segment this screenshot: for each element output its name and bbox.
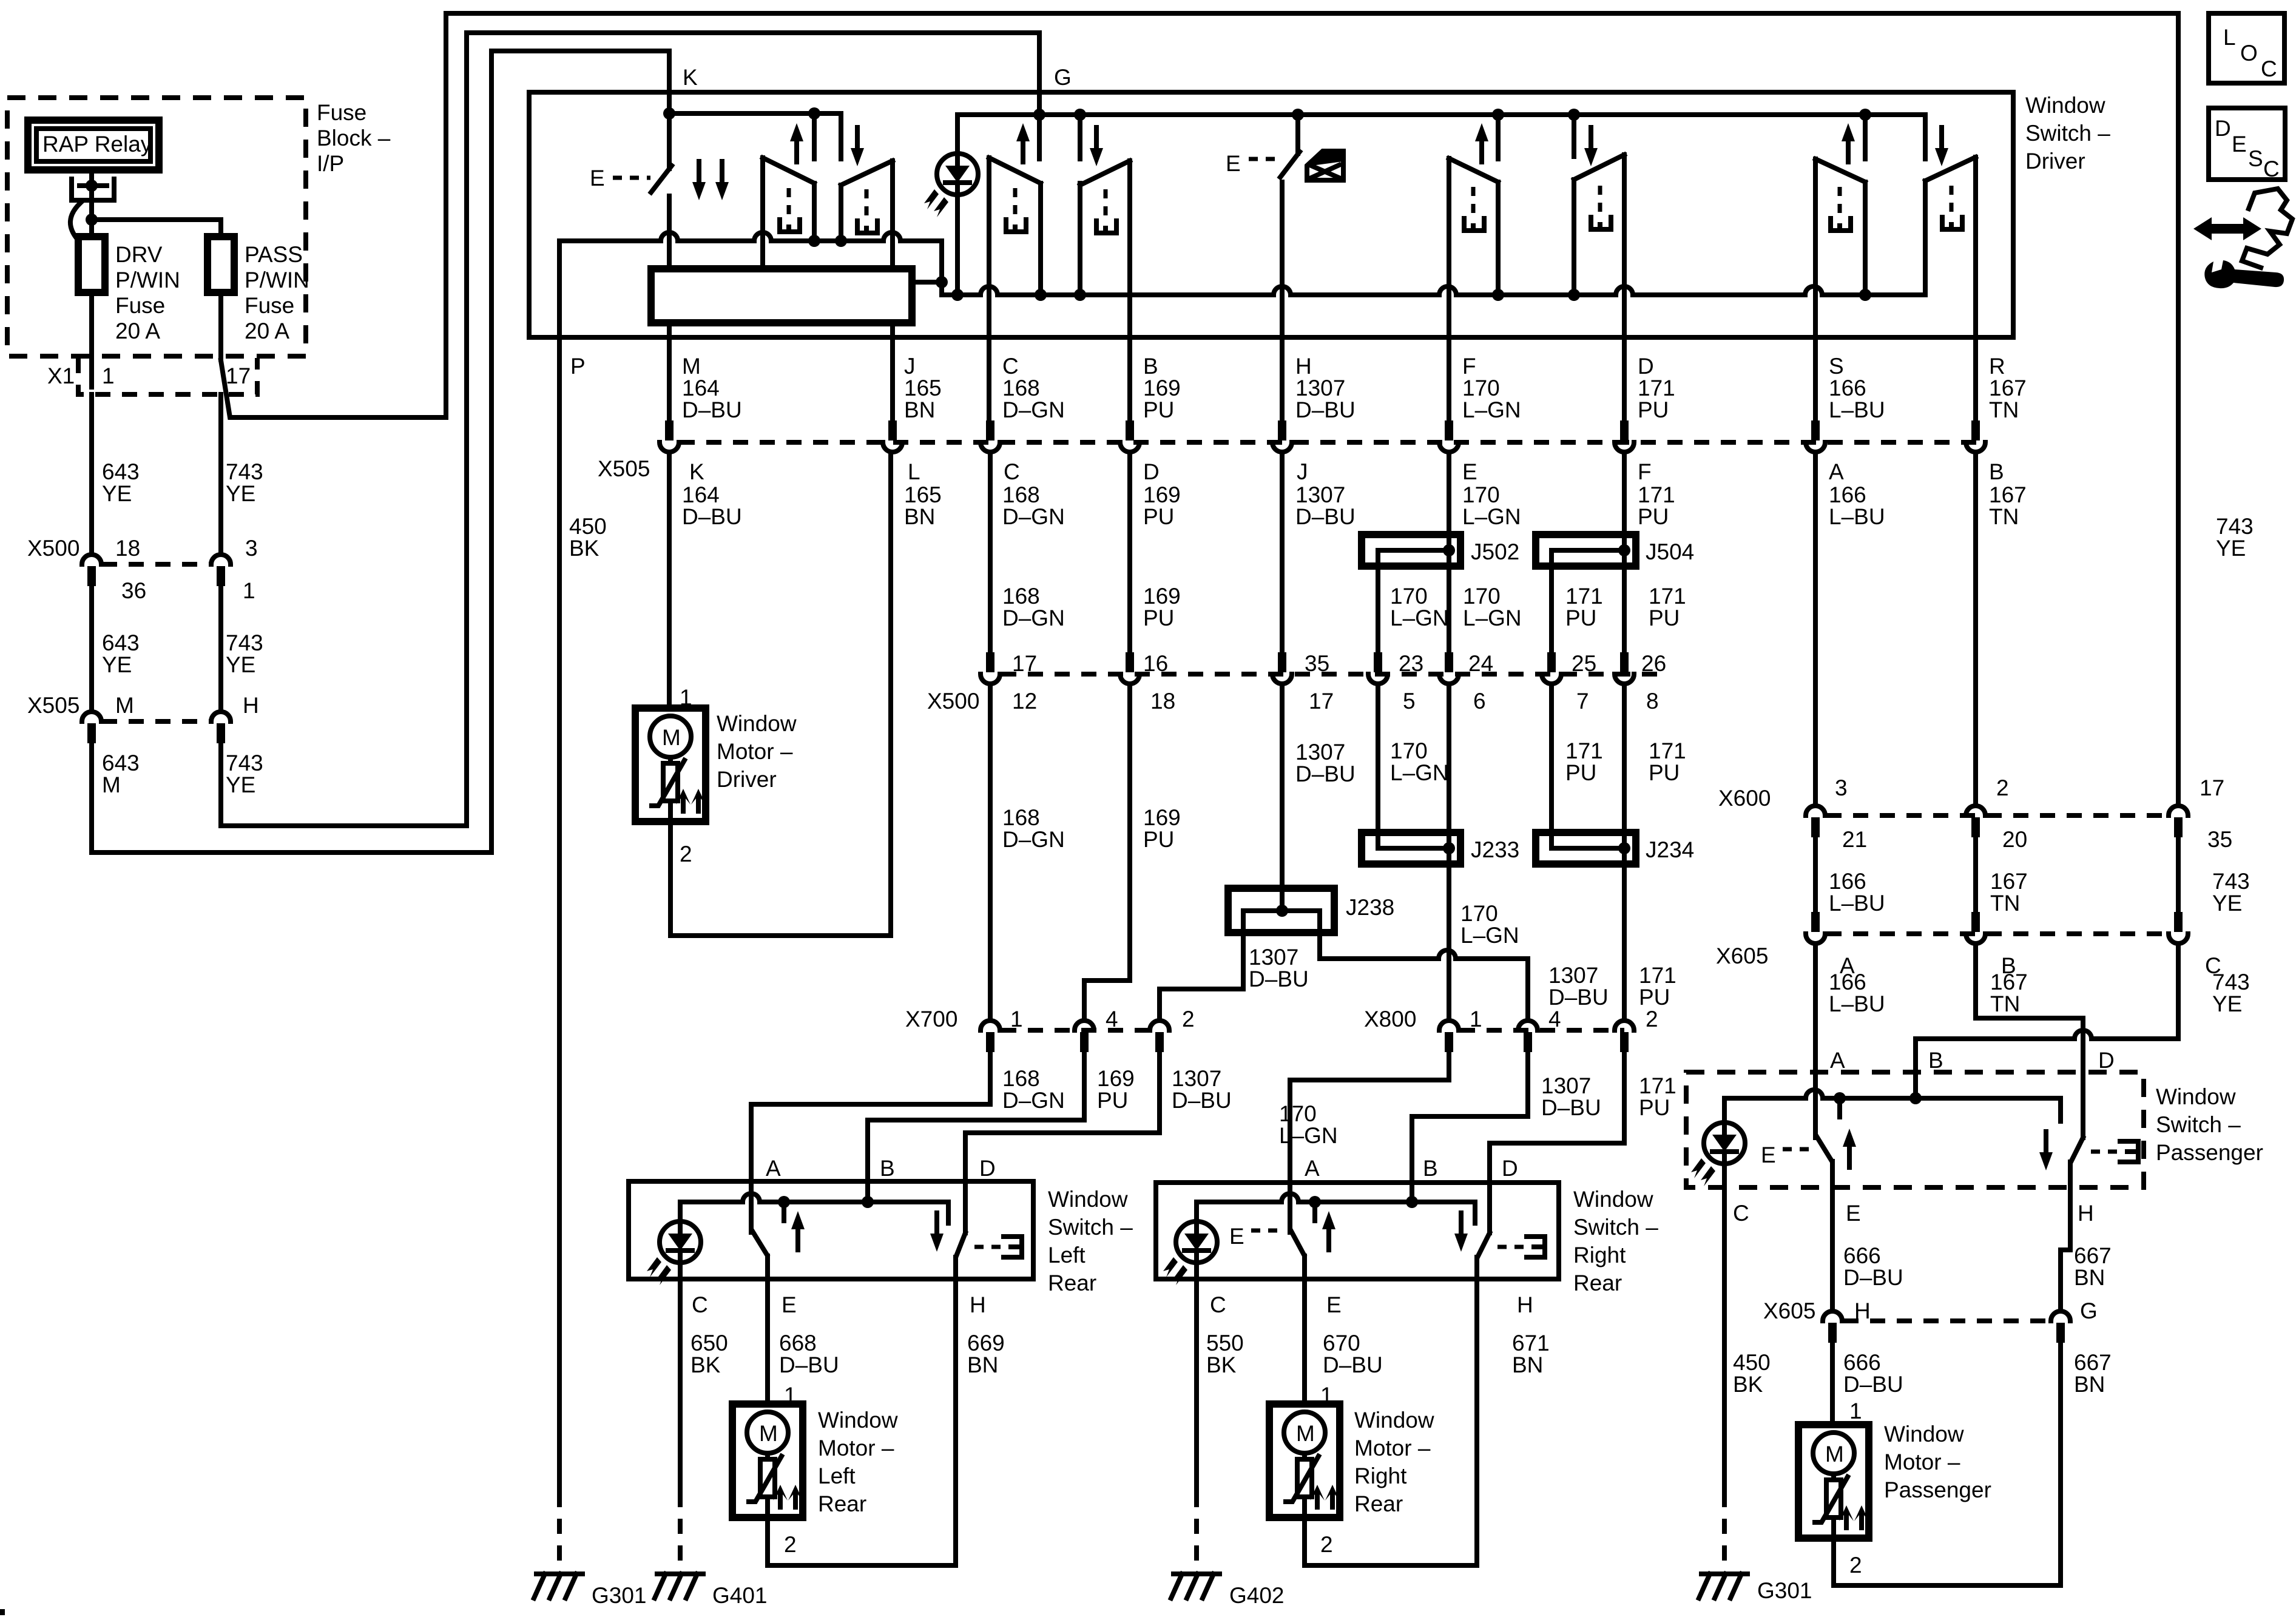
svg-text:PU: PU — [1565, 606, 1596, 630]
svg-text:C: C — [2263, 157, 2280, 181]
LOC box — [2209, 13, 2284, 83]
svg-text:165: 165 — [904, 376, 942, 400]
svg-text:Switch –: Switch – — [2025, 121, 2110, 146]
svg-text:Window: Window — [717, 711, 797, 736]
svg-text:Left: Left — [1048, 1243, 1086, 1268]
wire R 167 X505 to X600 — [1973, 453, 1978, 805]
svg-text:Switch –: Switch – — [2156, 1112, 2241, 1137]
connector X500 left row — [102, 562, 211, 567]
junction J233 — [1362, 832, 1460, 864]
svg-text:D–GN: D–GN — [1002, 1088, 1065, 1113]
svg-text:Window: Window — [818, 1408, 898, 1433]
svg-text:1307: 1307 — [1295, 740, 1345, 765]
wire D 169 X505 to X500 — [1127, 453, 1132, 663]
svg-text:36: 36 — [121, 578, 146, 603]
svg-text:D–BU: D–BU — [1323, 1352, 1383, 1377]
svg-text:21: 21 — [1842, 827, 1867, 852]
svg-text:D–GN: D–GN — [1002, 397, 1065, 422]
wire 1307 X800-4 to right rear B — [1412, 1052, 1528, 1204]
svg-text:667: 667 — [2074, 1350, 2112, 1375]
svg-text:668: 668 — [779, 1331, 817, 1355]
fuse DRV P/WIN — [89, 220, 94, 238]
svg-text:2: 2 — [1996, 775, 2009, 800]
svg-text:743: 743 — [2212, 869, 2250, 894]
svg-text:2: 2 — [1320, 1532, 1333, 1557]
right rear switch box — [1156, 1183, 1559, 1279]
svg-text:RAP Relay: RAP Relay — [42, 132, 152, 157]
internal bus passenger — [1724, 1090, 2061, 1122]
wire 643 M to driver switch K — [92, 51, 669, 852]
svg-text:Passenger: Passenger — [2156, 1140, 2263, 1165]
svg-text:PU: PU — [1097, 1088, 1128, 1113]
wire 670 to motor — [1302, 1279, 1307, 1404]
wire 643 fuse to X1 — [89, 292, 94, 387]
svg-text:J502: J502 — [1471, 539, 1519, 564]
svg-text:PASS: PASS — [245, 242, 303, 267]
wire 170 J233 to X800 pin1 — [1447, 848, 1451, 1019]
pair4 up wire — [1863, 115, 1868, 295]
connector X505 main row — [680, 440, 1984, 445]
svg-text:TN: TN — [1989, 504, 2019, 529]
svg-text:170: 170 — [1460, 901, 1498, 926]
svg-text:169: 169 — [1097, 1066, 1135, 1091]
svg-text:D–BU: D–BU — [779, 1352, 839, 1377]
wire 171 J234 to X800 pin2 — [1622, 848, 1627, 1019]
svg-text:TN: TN — [1990, 891, 2020, 916]
pair1 down wire — [839, 113, 843, 159]
wire J 1307 X505 to X500 — [1280, 453, 1285, 663]
svg-text:Driver: Driver — [717, 767, 777, 792]
svg-text:8: 8 — [1646, 689, 1659, 714]
svg-text:D–BU: D–BU — [1541, 1095, 1601, 1120]
svg-text:E: E — [1462, 459, 1477, 484]
svg-text:23: 23 — [1399, 651, 1423, 676]
up arrow — [1843, 1129, 1856, 1167]
svg-text:Window: Window — [1573, 1187, 1653, 1212]
svg-text:7: 7 — [1576, 689, 1589, 714]
connector X1 dashed box — [78, 358, 257, 394]
svg-text:G: G — [1054, 65, 1072, 90]
wire J out of block — [890, 323, 895, 337]
svg-text:E: E — [1846, 1201, 1861, 1226]
svg-text:171: 171 — [1639, 1073, 1676, 1098]
svg-text:G401: G401 — [712, 1583, 768, 1608]
svg-text:6: 6 — [1473, 689, 1486, 714]
pair2 blade dashes — [1013, 188, 1018, 218]
svg-text:Rear: Rear — [1354, 1491, 1403, 1516]
svg-text:C: C — [1004, 459, 1020, 484]
svg-text:BK: BK — [1206, 1352, 1237, 1377]
svg-text:1307: 1307 — [1295, 482, 1345, 507]
svg-text:16: 16 — [1143, 651, 1168, 676]
svg-text:Motor –: Motor – — [1354, 1436, 1431, 1460]
svg-text:166: 166 — [1829, 482, 1866, 507]
svg-text:L–BU: L–BU — [1829, 991, 1885, 1016]
up switch A-E — [1813, 945, 1818, 1138]
svg-text:167: 167 — [1990, 869, 2028, 894]
svg-text:YE: YE — [226, 652, 255, 677]
junction J234 — [1536, 832, 1636, 864]
svg-text:E: E — [1229, 1224, 1244, 1249]
svg-text:H: H — [2078, 1201, 2094, 1226]
window motor right rear — [1269, 1404, 1340, 1517]
wire 1307 X700-2 to left rear D — [965, 1052, 1160, 1233]
connector X700 row — [1001, 1028, 1160, 1033]
down arrow — [2039, 1132, 2053, 1170]
svg-text:L–GN: L–GN — [1460, 923, 1519, 948]
fuse PASS P/WIN — [208, 237, 234, 292]
wire 168 X500 to X700 — [988, 685, 993, 1019]
wire 169 X700-4 to left rear B — [868, 1052, 1084, 1204]
svg-text:F: F — [1638, 459, 1652, 484]
svg-text:D–BU: D–BU — [1295, 397, 1356, 422]
svg-text:BK: BK — [1733, 1372, 1763, 1397]
LED driver switch — [924, 154, 978, 217]
svg-text:X700: X700 — [905, 1007, 957, 1031]
svg-text:G301: G301 — [1757, 1578, 1812, 1603]
svg-text:743: 743 — [2216, 514, 2254, 539]
wire driver motor loop to L — [670, 453, 891, 936]
svg-text:PU: PU — [1638, 504, 1669, 529]
lockout contact dashes — [2091, 1150, 2118, 1154]
svg-text:A: A — [1829, 459, 1844, 484]
up arrow — [1322, 1211, 1335, 1250]
window lock icon — [1307, 151, 1343, 180]
junction J502 — [1447, 453, 1451, 550]
wire 743 YE X1 to X500 — [218, 394, 223, 553]
svg-text:PU: PU — [1143, 397, 1174, 422]
svg-text:D–BU: D–BU — [682, 504, 742, 529]
svg-text:Motor –: Motor – — [717, 739, 793, 764]
svg-text:743: 743 — [226, 459, 263, 484]
svg-text:PU: PU — [1639, 1095, 1670, 1120]
svg-text:TN: TN — [1989, 397, 2019, 422]
svg-text:170: 170 — [1390, 738, 1428, 763]
pair3 blade dashes — [1471, 187, 1476, 217]
svg-text:C: C — [2261, 56, 2277, 81]
svg-text:169: 169 — [1143, 805, 1181, 830]
svg-text:TN: TN — [1990, 991, 2020, 1016]
svg-text:2: 2 — [784, 1532, 797, 1557]
svg-text:X605: X605 — [1716, 944, 1768, 968]
pair1 up wire — [812, 113, 817, 159]
window motor left rear — [732, 1404, 803, 1517]
svg-text:L–BU: L–BU — [1829, 504, 1885, 529]
svg-text:X500: X500 — [927, 689, 979, 714]
svg-text:17: 17 — [226, 363, 251, 388]
wire 450 BK P down — [557, 337, 562, 1492]
wire P down from motor bus — [557, 241, 562, 337]
svg-text:2: 2 — [1849, 1553, 1862, 1578]
svg-text:X605: X605 — [1763, 1298, 1815, 1323]
svg-text:Window: Window — [2156, 1084, 2236, 1109]
svg-text:167: 167 — [1990, 970, 2028, 994]
svg-text:A: A — [1830, 1048, 1845, 1073]
pair4 down wire — [1923, 115, 1928, 295]
svg-text:650: 650 — [690, 1331, 728, 1355]
svg-text:450: 450 — [569, 514, 607, 539]
wire 171 X500-7 to J234 — [1549, 685, 1554, 848]
svg-text:H: H — [243, 693, 259, 718]
lower bus y486 — [942, 286, 1925, 295]
svg-text:D–BU: D–BU — [1295, 761, 1356, 786]
svg-text:743: 743 — [226, 630, 263, 655]
svg-text:171: 171 — [1638, 482, 1675, 507]
svg-text:L–GN: L–GN — [1390, 606, 1449, 630]
express-down double arrows — [692, 161, 706, 200]
svg-text:Switch –: Switch – — [1048, 1215, 1133, 1240]
svg-text:4: 4 — [1106, 1007, 1118, 1031]
connector X505 left row — [102, 719, 211, 724]
svg-text:20 A: 20 A — [115, 319, 160, 343]
svg-text:PU: PU — [1143, 606, 1174, 630]
svg-text:Switch –: Switch – — [1573, 1215, 1658, 1240]
svg-text:Fuse: Fuse — [115, 293, 165, 318]
DESC box — [2209, 108, 2285, 180]
svg-text:168: 168 — [1002, 482, 1040, 507]
svg-text:D–BU: D–BU — [1843, 1265, 1903, 1290]
svg-text:YE: YE — [2212, 891, 2242, 916]
svg-text:667: 667 — [2074, 1243, 2112, 1268]
wire 170 X800-1 to right rear A — [1290, 1052, 1449, 1190]
svg-text:Rear: Rear — [1573, 1271, 1622, 1295]
pair3 down wire — [1572, 115, 1576, 295]
lockout switch (window lock) — [1295, 115, 1300, 154]
svg-text:D: D — [1638, 354, 1654, 379]
svg-text:18: 18 — [115, 536, 140, 561]
svg-text:B: B — [880, 1156, 895, 1181]
svg-text:L–GN: L–GN — [1463, 606, 1522, 630]
fixed contact stub — [1312, 1202, 1317, 1221]
svg-text:24: 24 — [1468, 651, 1493, 676]
svg-text:168: 168 — [1002, 805, 1040, 830]
svg-text:Fuse: Fuse — [245, 293, 294, 318]
lockout contact dashes — [974, 1245, 1001, 1249]
down arrow — [930, 1213, 944, 1252]
svg-text:166: 166 — [1829, 869, 1866, 894]
wire 450 BK to G301 right — [1722, 1164, 1727, 1492]
svg-text:M: M — [682, 354, 701, 379]
svg-text:Block –: Block – — [317, 126, 391, 150]
svg-text:BK: BK — [690, 1352, 721, 1377]
svg-text:Motor –: Motor – — [818, 1436, 894, 1460]
svg-text:X600: X600 — [1718, 786, 1771, 811]
pair4 right blade — [1925, 157, 1976, 336]
wire 667 BN loop to motor pin2 — [1834, 1343, 2061, 1585]
RAP relay box — [28, 120, 159, 170]
svg-text:1307: 1307 — [1541, 1073, 1591, 1098]
wire 743 fuse to X1 — [218, 292, 223, 359]
wire 743 YE to driver switch G — [221, 33, 1039, 826]
ground G301 left — [557, 1492, 562, 1564]
svg-text:17: 17 — [1012, 651, 1037, 676]
svg-text:1307: 1307 — [1172, 1066, 1221, 1091]
svg-text:F: F — [1462, 354, 1476, 379]
svg-text:167: 167 — [1989, 482, 2027, 507]
wire 669 BN loop to motor pin2 — [768, 1279, 956, 1565]
svg-text:643: 643 — [102, 459, 140, 484]
svg-text:M: M — [115, 693, 134, 718]
svg-text:666: 666 — [1843, 1243, 1881, 1268]
svg-text:L: L — [908, 459, 920, 484]
svg-text:L–BU: L–BU — [1829, 891, 1885, 916]
svg-text:D–BU: D–BU — [1843, 1372, 1903, 1397]
svg-text:1307: 1307 — [1548, 963, 1598, 988]
svg-text:3: 3 — [1835, 775, 1848, 800]
wire 743 YE X500 to X505 — [218, 586, 223, 711]
LED right rear — [1163, 1221, 1217, 1285]
svg-text:PU: PU — [1565, 760, 1596, 785]
svg-text:Window: Window — [1884, 1422, 1964, 1447]
svg-text:Rear: Rear — [818, 1491, 866, 1516]
svg-text:170: 170 — [1462, 376, 1500, 400]
LED passenger — [1691, 1122, 1745, 1186]
svg-text:169: 169 — [1143, 482, 1181, 507]
svg-text:A: A — [766, 1156, 781, 1181]
fixed contact stub — [1837, 1098, 1842, 1117]
svg-text:PU: PU — [1143, 504, 1174, 529]
svg-text:J: J — [904, 354, 916, 379]
wire 169 X500 jog to X700 — [1084, 685, 1130, 1019]
down arrow — [1454, 1213, 1468, 1252]
wire 643 YE X500 to X505 — [89, 586, 94, 711]
svg-text:170: 170 — [1462, 482, 1500, 507]
svg-text:K: K — [683, 65, 698, 90]
window switch driver box — [529, 92, 2013, 337]
J238 left out to X700 pin2 — [1160, 911, 1243, 1019]
svg-text:PU: PU — [1638, 397, 1669, 422]
svg-text:B: B — [1423, 1156, 1438, 1181]
svg-text:Window: Window — [1354, 1408, 1434, 1433]
svg-text:171: 171 — [1649, 584, 1686, 609]
down switch D-H — [1478, 1233, 1490, 1256]
svg-text:20 A: 20 A — [245, 319, 289, 343]
svg-text:E: E — [590, 166, 605, 191]
svg-text:L–GN: L–GN — [1390, 760, 1449, 785]
svg-text:Fuse: Fuse — [317, 100, 366, 125]
svg-text:166: 166 — [1829, 970, 1866, 994]
pair4 blade dashes — [1838, 187, 1842, 217]
wire 166 L-BU to passenger A — [1813, 945, 1818, 1138]
svg-text:167: 167 — [1989, 376, 2027, 400]
svg-text:Driver: Driver — [2025, 149, 2085, 174]
svg-text:1: 1 — [102, 363, 115, 388]
svg-text:171: 171 — [1639, 963, 1676, 988]
svg-text:PU: PU — [1649, 606, 1680, 630]
svg-text:B: B — [1928, 1048, 1943, 1073]
svg-text:12: 12 — [1012, 689, 1037, 714]
wire C 168 X505 to X500 — [988, 453, 993, 663]
wires X600 to X605 — [1813, 837, 1818, 912]
svg-text:171: 171 — [1649, 738, 1686, 763]
svg-text:L: L — [2223, 25, 2236, 50]
svg-text:C: C — [692, 1292, 708, 1317]
svg-text:J234: J234 — [1646, 837, 1694, 862]
wire 170 X500-5 to J233 — [1376, 685, 1380, 848]
svg-text:550: 550 — [1206, 1331, 1244, 1355]
svg-text:G301: G301 — [592, 1583, 647, 1608]
svg-text:BN: BN — [1512, 1352, 1543, 1377]
svg-text:PU: PU — [1649, 760, 1680, 785]
svg-text:26: 26 — [1641, 651, 1666, 676]
svg-text:671: 671 — [1512, 1331, 1550, 1355]
internal bus left rear — [680, 1193, 948, 1223]
svg-text:E: E — [1761, 1143, 1776, 1167]
svg-text:D–BU: D–BU — [1295, 504, 1356, 529]
svg-text:Rear: Rear — [1048, 1271, 1096, 1295]
bus G section y189 — [957, 112, 1925, 117]
svg-text:D–BU: D–BU — [1249, 967, 1309, 991]
svg-text:169: 169 — [1143, 584, 1181, 609]
wire 668 to motor — [765, 1279, 770, 1404]
svg-text:J233: J233 — [1471, 837, 1519, 862]
fixed contact stub — [782, 1202, 786, 1221]
svg-text:YE: YE — [2212, 991, 2242, 1016]
svg-text:X1: X1 — [47, 363, 75, 388]
svg-text:E: E — [2232, 132, 2247, 157]
svg-text:P: P — [570, 354, 586, 379]
svg-text:5: 5 — [1403, 689, 1416, 714]
pair2 up wire (G) — [1039, 115, 1041, 295]
motor control block — [651, 269, 912, 323]
page mark — [0, 1609, 5, 1615]
svg-text:669: 669 — [967, 1331, 1005, 1355]
svg-text:P/WIN: P/WIN — [115, 268, 180, 292]
svg-text:S: S — [2248, 146, 2263, 171]
svg-text:YE: YE — [102, 481, 132, 506]
svg-text:Motor –: Motor – — [1884, 1450, 1960, 1474]
svg-text:D–BU: D–BU — [682, 397, 742, 422]
svg-text:643: 643 — [102, 751, 140, 775]
svg-text:17: 17 — [2200, 775, 2224, 800]
connector X600 row — [1826, 813, 2167, 818]
fuse block I/P dashed box — [7, 98, 306, 356]
bus K section y187 — [669, 111, 841, 116]
lockout switch E (driver window) — [667, 113, 672, 169]
svg-text:C: C — [1210, 1292, 1226, 1317]
pair1 blade dashes — [787, 188, 791, 218]
svg-text:3: 3 — [245, 536, 258, 561]
svg-text:170: 170 — [1279, 1101, 1317, 1126]
svg-text:D–GN: D–GN — [1002, 606, 1065, 630]
svg-text:X505: X505 — [27, 693, 79, 718]
svg-text:X800: X800 — [1364, 1007, 1416, 1031]
svg-text:H: H — [1517, 1292, 1533, 1317]
svg-text:171: 171 — [1565, 738, 1603, 763]
wire relay to PASS fuse — [92, 220, 221, 237]
svg-text:YE: YE — [226, 772, 255, 797]
svg-text:170: 170 — [1390, 584, 1428, 609]
up switch A-E — [749, 1190, 754, 1232]
junction J238 — [1228, 888, 1334, 933]
svg-text:O: O — [2240, 41, 2258, 66]
wire 171 X500-8 to J234 — [1622, 685, 1627, 848]
svg-text:171: 171 — [1638, 376, 1675, 400]
connector X605 row — [1826, 931, 2167, 936]
svg-text:BN: BN — [2074, 1372, 2105, 1397]
pair2 down wire — [1078, 115, 1082, 295]
wire 743 jog from X1-17 to outer loop — [221, 13, 2178, 806]
svg-text:BN: BN — [904, 397, 935, 422]
svg-text:D–GN: D–GN — [1002, 827, 1065, 852]
svg-text:E: E — [1326, 1292, 1342, 1317]
RAP relay contact — [89, 169, 94, 216]
svg-text:YE: YE — [226, 481, 255, 506]
svg-text:Right: Right — [1573, 1243, 1626, 1268]
svg-text:D: D — [2098, 1048, 2115, 1073]
window motor driver — [635, 708, 706, 822]
down switch D-H — [2071, 1138, 2083, 1161]
